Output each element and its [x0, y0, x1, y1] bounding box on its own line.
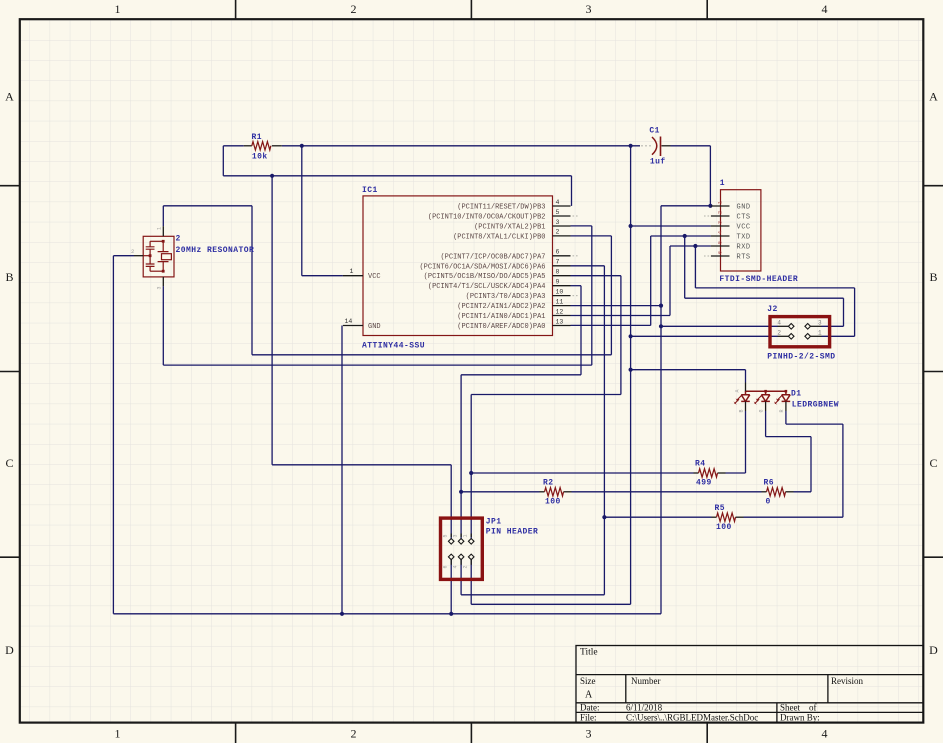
- IC pin 11 stub: [553, 305, 571, 307]
- junction: [693, 244, 697, 248]
- JP1 pin 3 diamond: [458, 539, 464, 545]
- connector J2 PINHD-2/2-SMD body: [770, 317, 830, 347]
- wire resonator pin2: [113, 255, 134, 257]
- resistor R5 zigzag: [717, 513, 736, 521]
- JP1 pin 2 diamond: [468, 554, 474, 560]
- svg-text:D: D: [5, 643, 14, 657]
- svg-text:3: 3: [586, 727, 592, 741]
- zone tick bottom: [235, 723, 237, 743]
- wire JP1 left-bottom drop: [450, 560, 452, 614]
- JP1 pin 4 diamond: [458, 554, 464, 560]
- svg-text:B: B: [929, 270, 937, 284]
- wire R5 row left: [604, 516, 711, 518]
- LED cathode pin: [745, 401, 747, 411]
- svg-text:13: 13: [556, 318, 564, 325]
- wire PA4 row: [461, 374, 581, 376]
- svg-text:(PCINT7/ICP/OC0B/ADC7)PA7: (PCINT7/ICP/OC0B/ADC7)PA7: [440, 253, 545, 261]
- wire R1 left drop: [222, 146, 224, 176]
- svg-text:R5: R5: [715, 504, 726, 513]
- svg-text:100: 100: [716, 523, 732, 532]
- JP1 pin 6 diamond: [448, 554, 454, 560]
- hotspot mark: [573, 215, 575, 217]
- zone tick left: [0, 371, 20, 373]
- JP1 top pin stub 1: [470, 534, 472, 538]
- svg-text:5: 5: [718, 241, 724, 244]
- wire drop to PB3 pin: [571, 176, 573, 206]
- zone tick top: [470, 0, 472, 19]
- svg-text:2: 2: [351, 727, 357, 741]
- svg-text:(PCINT11/RESET/DW)PB3: (PCINT11/RESET/DW)PB3: [457, 204, 545, 212]
- JP1 top pin stub 3: [460, 534, 462, 538]
- svg-text:11: 11: [556, 298, 564, 305]
- resistor R5: [712, 516, 717, 518]
- J2 pin 4 diamond: [788, 324, 794, 330]
- zone tick right: [923, 556, 943, 558]
- svg-text:CTS: CTS: [737, 214, 751, 222]
- svg-text:C: C: [5, 456, 13, 470]
- svg-text:IC1: IC1: [362, 186, 378, 195]
- svg-text:4: 4: [556, 199, 560, 206]
- wire PA2 row to GND vert: [571, 305, 662, 307]
- svg-text:(PCINT5/OC1B/MISO/DO/ADC5)PA5: (PCINT5/OC1B/MISO/DO/ADC5)PA5: [424, 273, 546, 281]
- resonator pin 3: [162, 277, 164, 286]
- svg-text:10: 10: [556, 288, 564, 295]
- wire RESET row to PB3: [223, 175, 571, 177]
- resistor R4 zigzag: [699, 469, 718, 477]
- J2 pin 4 stub: [778, 325, 789, 327]
- FTDI pin 5 stub: [711, 245, 730, 247]
- hotspot mark: [704, 215, 706, 217]
- svg-text:20MHz RESONATOR: 20MHz RESONATOR: [176, 246, 255, 255]
- svg-text:6: 6: [443, 565, 449, 568]
- FTDI pin 2 stub: [711, 215, 730, 217]
- svg-text:C1: C1: [649, 126, 660, 135]
- svg-text:A: A: [5, 90, 14, 104]
- wire down to JP1 top-middle: [460, 375, 462, 539]
- wire down to J2 pin1: [854, 288, 856, 336]
- svg-text:4: 4: [453, 565, 459, 568]
- svg-text:5: 5: [443, 534, 449, 537]
- svg-text:FTDI-SMD-HEADER: FTDI-SMD-HEADER: [719, 275, 798, 284]
- zone tick bottom: [706, 723, 708, 743]
- wire XTAL1 row: [252, 354, 611, 356]
- IC pin 2 stub: [553, 235, 571, 237]
- hotspot mark: [641, 145, 643, 147]
- svg-text:1uf: 1uf: [650, 157, 666, 166]
- wire LED3 row: [786, 423, 843, 425]
- wire PA0 row: [571, 324, 651, 326]
- wire LED1 cathode drop: [745, 411, 747, 473]
- wire PB1 row stub: [571, 225, 592, 227]
- junction: [629, 368, 633, 372]
- svg-text:4: 4: [777, 319, 781, 326]
- svg-text:4: 4: [718, 231, 724, 234]
- capacitor C1: [652, 137, 657, 155]
- wire PA5 row stub: [571, 275, 621, 277]
- wire down to JP1 top-right: [470, 395, 472, 539]
- svg-text:GND: GND: [737, 204, 751, 212]
- svg-text:5: 5: [556, 209, 560, 216]
- resistor R6 zigzag: [767, 488, 786, 496]
- wire JP1 right-bottom row: [471, 603, 630, 605]
- svg-text:VCC: VCC: [368, 273, 381, 281]
- svg-text:1: 1: [350, 268, 354, 275]
- wire TXD to J2 area: [685, 297, 844, 299]
- resistor R4: [694, 472, 699, 474]
- svg-text:3: 3: [157, 286, 163, 289]
- wire LED anode row: [631, 369, 746, 371]
- svg-text:J2: J2: [767, 305, 778, 314]
- svg-text:of: of: [809, 702, 817, 712]
- zone tick right: [923, 371, 943, 373]
- zone tick left: [0, 185, 20, 187]
- svg-text:C: C: [929, 456, 937, 470]
- LED cathode pin: [785, 401, 787, 411]
- resistor R1 zigzag: [252, 142, 271, 150]
- wire down to J2 pin3: [843, 298, 845, 326]
- JP1 bottom pin stub 6: [450, 560, 452, 565]
- svg-text:7: 7: [556, 259, 560, 266]
- wire PA4 row stub: [571, 285, 582, 287]
- JP1 bottom pin stub 2: [470, 560, 472, 565]
- junction: [300, 144, 304, 148]
- svg-text:1: 1: [718, 201, 724, 204]
- wire GND bottom rail: [113, 613, 661, 615]
- svg-text:4: 4: [822, 727, 828, 741]
- hotspot mark: [576, 255, 578, 257]
- svg-text:Revision: Revision: [831, 676, 864, 686]
- junction: [659, 304, 663, 308]
- svg-text:6: 6: [556, 249, 560, 256]
- svg-text:(PCINT6/OC1A/SDA/MOSI/ADC6)PA6: (PCINT6/OC1A/SDA/MOSI/ADC6)PA6: [419, 263, 545, 271]
- resistor R1: [244, 145, 252, 147]
- wire LED anode drop: [745, 370, 747, 383]
- svg-text:(PCINT9/XTAL2)PB1: (PCINT9/XTAL2)PB1: [474, 224, 545, 232]
- junction: [270, 174, 274, 178]
- svg-text:3: 3: [818, 319, 822, 326]
- zone tick top: [706, 0, 708, 19]
- wire RXD branch down: [694, 246, 696, 288]
- svg-text:ATTINY44-SSU: ATTINY44-SSU: [362, 341, 425, 350]
- svg-text:2: 2: [176, 235, 181, 244]
- wire XTAL2 row: [163, 364, 592, 366]
- svg-text:RTS: RTS: [737, 254, 751, 262]
- svg-text:(PCINT2/AIN1/ADC2)PA2: (PCINT2/AIN1/ADC2)PA2: [457, 303, 545, 311]
- zone tick right: [923, 185, 943, 187]
- wire R5 row right: [744, 516, 843, 518]
- wire R2 to R6: [572, 491, 762, 493]
- wire TXD branch down: [684, 236, 686, 298]
- wire resonator pin1 row: [163, 205, 252, 207]
- wire LED3 link drop: [842, 424, 844, 517]
- svg-text:2: 2: [463, 565, 469, 568]
- svg-text:3: 3: [718, 221, 724, 224]
- J2 pin 1 diamond: [805, 334, 811, 340]
- wire VCC rail R1 to C1: [282, 145, 640, 147]
- resistor R2 zigzag: [545, 488, 564, 496]
- svg-text:C:\Users\..\RGBLEDMaster.SchDo: C:\Users\..\RGBLEDMaster.SchDoc: [626, 713, 758, 723]
- wire PA6 staircase long: [603, 266, 605, 595]
- svg-text:R4: R4: [695, 460, 706, 469]
- wire FTDI TXD row: [651, 235, 711, 237]
- LED D1 LEDRGBNEW: [735, 391, 791, 403]
- svg-text:Title: Title: [580, 648, 598, 658]
- IC pin 9 stub: [553, 285, 571, 287]
- wire TXD staircase: [650, 236, 652, 325]
- svg-text:14: 14: [345, 318, 353, 325]
- wire PA4 staircase: [580, 286, 582, 375]
- svg-text:B: B: [5, 270, 13, 284]
- IC pin 7 stub: [553, 265, 571, 267]
- svg-text:Size: Size: [580, 676, 596, 686]
- FTDI pin 1 stub: [711, 205, 730, 207]
- svg-text:1: 1: [720, 179, 725, 188]
- svg-text:JP1: JP1: [486, 518, 502, 527]
- J2 pin 1 stub: [811, 335, 822, 337]
- wire R4 to LED1: [726, 472, 746, 474]
- svg-text:R6: R6: [764, 479, 775, 488]
- svg-text:TXD: TXD: [737, 234, 751, 242]
- svg-text:2: 2: [556, 229, 560, 236]
- IC pin 6 stub: [553, 255, 571, 257]
- IC U1 ATTINY44-SSU body: [363, 196, 553, 336]
- svg-text:3: 3: [453, 534, 459, 537]
- svg-text:3: 3: [556, 219, 560, 226]
- svg-text:12: 12: [556, 308, 564, 315]
- connector JP1 PIN HEADER body: [441, 518, 483, 579]
- svg-text:D: D: [929, 643, 938, 657]
- IC pin 5 stub: [553, 215, 571, 217]
- JP1 bottom pin stub 4: [460, 560, 462, 565]
- hotspot mark: [576, 295, 578, 297]
- JP1 top pin stub 5: [450, 534, 452, 538]
- svg-text:GND: GND: [368, 323, 381, 331]
- svg-text:(PCINT1/AIN0/ADC1)PA1: (PCINT1/AIN0/ADC1)PA1: [457, 313, 545, 321]
- svg-text:(PCINT8/XTAL1/CLKI)PB0: (PCINT8/XTAL1/CLKI)PB0: [453, 233, 545, 241]
- wire R2 row left: [461, 491, 539, 493]
- LED cathode pin: [765, 401, 767, 411]
- svg-text:2: 2: [131, 248, 134, 255]
- junction: [629, 334, 633, 338]
- svg-text:2: 2: [351, 2, 357, 16]
- wire LED2 cathode drop: [765, 411, 767, 437]
- wire VCC long vertical: [630, 146, 632, 605]
- J2 pin 3 diamond: [805, 324, 811, 330]
- resistor R2: [540, 491, 545, 493]
- JP1 pin 1 diamond: [468, 539, 474, 545]
- IC pin 4 stub: [553, 205, 571, 207]
- J2 pin 2 stub: [778, 335, 789, 337]
- wire J2 pin2 row: [631, 335, 778, 337]
- IC pin 3 stub: [553, 225, 571, 227]
- hotspot mark: [704, 255, 706, 257]
- svg-text:1: 1: [115, 727, 121, 741]
- svg-text:PINHD-2/2-SMD: PINHD-2/2-SMD: [767, 353, 835, 362]
- wire IC GND drop: [341, 326, 343, 614]
- svg-text:1: 1: [463, 534, 469, 537]
- wire GND left riser: [112, 256, 114, 614]
- resonator Q2 20MHz: [143, 236, 174, 277]
- FTDI pin 6 stub: [711, 255, 730, 257]
- IC pin 13 stub: [553, 325, 571, 327]
- svg-text:(PCINT3/T0/ADC3)PA3: (PCINT3/T0/ADC3)PA3: [466, 293, 546, 301]
- junction: [449, 612, 453, 616]
- wire JP1 mid-bottom row: [461, 594, 604, 596]
- svg-text:2: 2: [718, 211, 724, 214]
- svg-text:6: 6: [718, 251, 724, 254]
- hotspot mark: [573, 295, 575, 297]
- svg-text:RXD: RXD: [737, 244, 751, 252]
- wire RXD staircase: [669, 246, 671, 316]
- connector FTDI-SMD-HEADER body: [721, 190, 761, 271]
- wire PA1 row: [571, 315, 671, 317]
- wire RESET vertical: [271, 176, 273, 465]
- resistor R6: [762, 491, 767, 493]
- wire C1 right to corner: [671, 145, 711, 147]
- junction: [340, 612, 344, 616]
- hotspot mark: [708, 255, 710, 257]
- junction: [708, 204, 712, 208]
- IC pin 10 stub: [553, 295, 571, 297]
- svg-text:6/11/2018: 6/11/2018: [626, 702, 663, 712]
- wire PB0 row stub: [571, 235, 612, 237]
- wire resonator pin3 drop: [162, 286, 164, 365]
- J2 pin 2 diamond: [788, 334, 794, 340]
- wire JP1 right-bottom drop: [470, 560, 472, 605]
- wire PA6 row stub: [571, 265, 605, 267]
- wire PA5 row: [471, 394, 621, 396]
- svg-text:B: B: [738, 409, 744, 412]
- LED anode pin: [745, 383, 747, 392]
- wire LED3 cathode drop: [785, 411, 787, 424]
- svg-text:1: 1: [157, 227, 163, 230]
- svg-text:Number: Number: [631, 676, 661, 686]
- junction: [459, 490, 463, 494]
- hotspot mark: [649, 145, 651, 147]
- wire GND main vertical: [660, 206, 662, 614]
- svg-text:(PCINT10/INT0/OC0A/CKOUT)PB2: (PCINT10/INT0/OC0A/CKOUT)PB2: [428, 214, 546, 222]
- svg-text:4: 4: [822, 2, 828, 16]
- junction: [629, 144, 633, 148]
- wire JP1 mid-bottom drop: [460, 560, 462, 595]
- IC pin 1 stub VCC: [343, 275, 363, 277]
- zone tick left: [0, 556, 20, 558]
- svg-text:0: 0: [766, 498, 771, 507]
- resonator pin 2: [134, 255, 143, 257]
- zone tick bottom: [470, 723, 472, 743]
- zone tick top: [235, 0, 237, 19]
- IC pin 14 stub GND: [343, 325, 363, 327]
- wire R4 row left: [471, 472, 693, 474]
- svg-text:R: R: [779, 409, 785, 412]
- hotspot mark: [708, 215, 710, 217]
- svg-text:9: 9: [556, 279, 560, 286]
- resonator pin 1: [162, 226, 164, 236]
- svg-text:D1: D1: [791, 389, 802, 398]
- svg-text:100: 100: [545, 498, 561, 507]
- wire into J2 pin1: [822, 335, 855, 337]
- wire into J2 pin3: [822, 325, 844, 327]
- svg-text:PIN HEADER: PIN HEADER: [486, 528, 539, 537]
- svg-text:A: A: [585, 690, 593, 701]
- svg-text:10k: 10k: [252, 153, 268, 162]
- wire LED2 link drop: [810, 437, 812, 492]
- wire RXD to J2 area: [695, 287, 854, 289]
- junction: [683, 234, 687, 238]
- wire resonator pin1 drop: [162, 206, 164, 226]
- wire VCC rail left of R1: [223, 145, 244, 147]
- wire PA5 staircase: [620, 276, 622, 395]
- wire down to JP1 pin top-left: [450, 465, 452, 539]
- wire R6 right: [794, 491, 812, 493]
- svg-text:499: 499: [696, 479, 712, 488]
- wire RESET to JP1 col: [272, 464, 451, 466]
- J2 pin 3 stub: [811, 325, 822, 327]
- wire PB0 staircase: [610, 236, 612, 355]
- JP1 pin 5 diamond: [448, 539, 454, 545]
- title block: [576, 646, 923, 723]
- IC pin 12 stub: [553, 315, 571, 317]
- svg-text:Sheet: Sheet: [780, 702, 800, 712]
- wire PB1 staircase: [591, 226, 593, 365]
- svg-text:8: 8: [556, 269, 560, 276]
- wire to IC VCC stub: [302, 275, 343, 277]
- IC pin 8 stub: [553, 275, 571, 277]
- svg-text:(PCINT0/AREF/ADC0)PA0: (PCINT0/AREF/ADC0)PA0: [457, 323, 545, 331]
- svg-text:Date:: Date:: [580, 702, 600, 712]
- wire J2 pin4 row: [661, 325, 778, 327]
- wire to FTDI VCC: [631, 225, 711, 227]
- junction: [469, 471, 473, 475]
- svg-text:3: 3: [586, 2, 592, 16]
- svg-text:A: A: [735, 389, 741, 392]
- wire XTAL1 vertical: [251, 206, 253, 355]
- junction: [602, 515, 606, 519]
- svg-text:1: 1: [818, 329, 822, 336]
- wire LED2 row: [766, 436, 811, 438]
- FTDI pin 4 stub: [711, 235, 730, 237]
- svg-text:R2: R2: [543, 479, 554, 488]
- svg-text:A: A: [929, 90, 938, 104]
- wire down to FTDI GND: [709, 146, 711, 206]
- svg-text:(PCINT4/T1/SCL/USCK/ADC4)PA4: (PCINT4/T1/SCL/USCK/ADC4)PA4: [428, 283, 546, 291]
- hotspot mark: [573, 255, 575, 257]
- junction: [629, 224, 633, 228]
- wire FTDI RXD row: [670, 245, 711, 247]
- hotspot mark: [645, 145, 647, 147]
- junction: [659, 324, 663, 328]
- svg-text:1: 1: [115, 2, 121, 16]
- svg-text:G: G: [759, 409, 765, 412]
- wire VCC drop to IC pin1: [301, 146, 303, 276]
- svg-text:Drawn By:: Drawn By:: [780, 713, 820, 723]
- FTDI pin 3 stub: [711, 225, 730, 227]
- svg-text:LEDRGBNEW: LEDRGBNEW: [792, 400, 839, 409]
- svg-text:2: 2: [777, 329, 781, 336]
- svg-text:VCC: VCC: [737, 224, 751, 232]
- svg-text:File:: File:: [580, 713, 597, 723]
- hotspot mark: [576, 215, 578, 217]
- svg-text:R1: R1: [252, 133, 263, 142]
- wire FTDI GND row: [661, 205, 711, 207]
